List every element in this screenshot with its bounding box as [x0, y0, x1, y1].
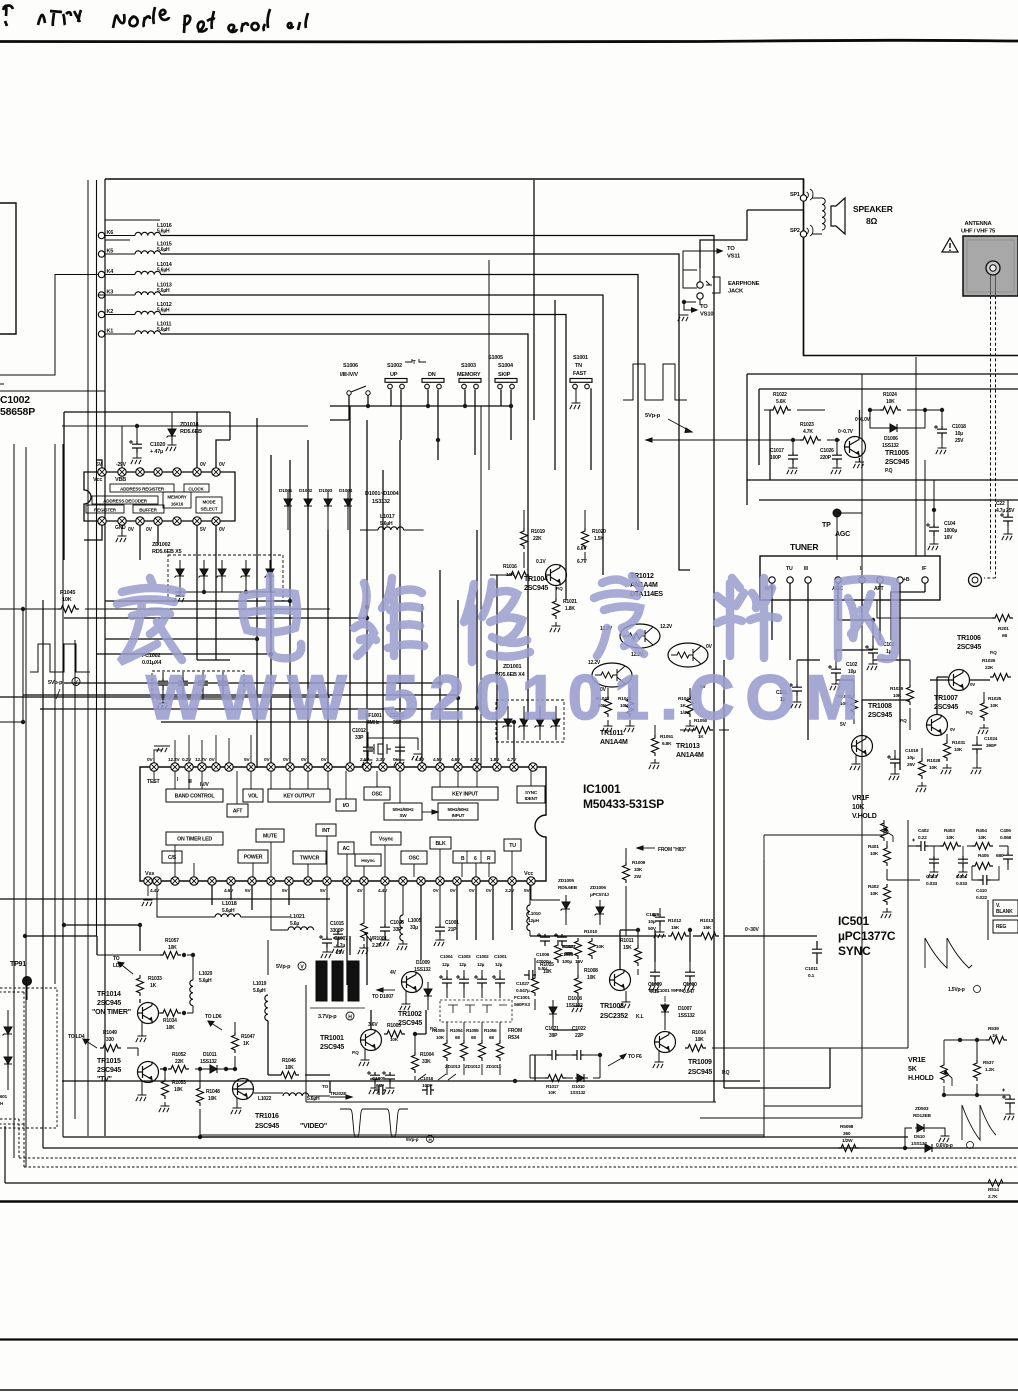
- svg-text:C1022: C1022: [572, 1026, 586, 1032]
- svg-text:10K: 10K: [954, 747, 963, 753]
- svg-text:25V: 25V: [1006, 508, 1015, 514]
- junction VR1E: [942, 1038, 979, 1097]
- resistor R1025: [978, 692, 1002, 734]
- tuner block: [760, 542, 982, 600]
- svg-text:12µ: 12µ: [477, 962, 485, 967]
- junction cluster mid: [255, 599, 516, 724]
- switch bus wires: [330, 388, 591, 470]
- transistor TR1005: [845, 410, 866, 458]
- svg-text:Vcc: Vcc: [524, 871, 533, 877]
- svg-text:0.047µ: 0.047µ: [516, 988, 530, 994]
- svg-text:ZD1011: ZD1011: [486, 1064, 502, 1069]
- resistor R1015: [532, 958, 555, 1010]
- label TR1013: [676, 743, 704, 759]
- label TR1003: [600, 1003, 644, 1020]
- left partial box: [0, 203, 16, 384]
- svg-text:10K: 10K: [174, 1087, 183, 1093]
- nested corners right: [764, 374, 862, 1106]
- box 50Hz SW: [384, 803, 422, 820]
- resistor R1057: [97, 938, 193, 959]
- switch S1004: [498, 363, 514, 369]
- svg-text:0V: 0V: [321, 757, 327, 763]
- capacitor C102: [828, 650, 858, 690]
- svg-text:12.2V: 12.2V: [168, 757, 181, 763]
- svg-text:TU: TU: [509, 843, 516, 849]
- svg-text:KEY INPUT: KEY INPUT: [452, 792, 479, 798]
- svg-text:R1013: R1013: [700, 918, 714, 924]
- svg-text:µPC574J: µPC574J: [590, 892, 609, 898]
- svg-text:R1005: R1005: [432, 1028, 445, 1033]
- svg-text:BLANK: BLANK: [996, 909, 1013, 915]
- svg-text:0~6.0V: 0~6.0V: [855, 417, 871, 423]
- svg-text:SP2: SP2: [790, 228, 800, 234]
- svg-text:S1003: S1003: [461, 363, 476, 369]
- diode D510: [911, 1134, 936, 1152]
- svg-text:50V: 50V: [648, 926, 657, 932]
- handwritten title "H. TRAFO PHO": [3, 6, 308, 34]
- label TR1005: [885, 450, 909, 474]
- svg-text:0V: 0V: [301, 757, 307, 763]
- box MUTE: [256, 829, 284, 842]
- svg-text:5Vp-p: 5Vp-p: [406, 1137, 419, 1143]
- zener ZD1006: [590, 885, 609, 925]
- svg-text:4.6V: 4.6V: [451, 757, 461, 763]
- inductor L1022: [254, 1093, 331, 1102]
- svg-text:L1022: L1022: [258, 1096, 272, 1102]
- svg-text:12µ: 12µ: [459, 962, 467, 967]
- svg-text:C1029: C1029: [646, 912, 660, 918]
- svg-text:5V: 5V: [320, 888, 326, 894]
- svg-text:MEMORY: MEMORY: [167, 495, 186, 500]
- svg-text:4.5V: 4.5V: [433, 757, 443, 763]
- capacitor C1007: [319, 885, 348, 958]
- svg-text:R1028: R1028: [927, 758, 941, 764]
- transistor TR1006: [949, 635, 998, 691]
- transistor TR1001: [320, 1022, 382, 1055]
- zener group ZD1002 RD5.6EB X5: [152, 542, 283, 602]
- TR1016 gnd: [231, 1098, 242, 1114]
- resistor R1034: [159, 1010, 194, 1032]
- svg-text:D1008: D1008: [568, 996, 582, 1002]
- svg-text:10K: 10K: [852, 804, 864, 811]
- svg-text:TO: TO: [322, 1084, 329, 1090]
- svg-text:4.3V: 4.3V: [470, 757, 480, 763]
- svg-text:S1005: S1005: [488, 355, 503, 361]
- left long wire y697: [0, 696, 330, 698]
- resistor R1050: [680, 718, 729, 739]
- svg-text:4.7K: 4.7K: [803, 429, 813, 435]
- pot VR1001: [358, 885, 387, 954]
- svg-text:C1011: C1011: [805, 966, 818, 972]
- switch S1006: [340, 363, 370, 395]
- TR1014 gnd: [136, 1022, 147, 1042]
- label TR1011: [600, 730, 628, 746]
- svg-text:5.6µH: 5.6µH: [380, 521, 393, 527]
- box TW/VCR: [293, 851, 326, 864]
- top harness horizontals: [105, 220, 160, 240]
- svg-text:4.4V: 4.4V: [378, 888, 388, 894]
- svg-text:1.2K: 1.2K: [985, 1067, 995, 1073]
- resistors R1005/R1054/R1055/R1056: [432, 1022, 504, 1075]
- watermark chinese characters + URL: [117, 576, 895, 662]
- resistor R201: [877, 600, 1013, 639]
- svg-text:R1019: R1019: [531, 529, 545, 535]
- R1045 wire: [0, 608, 330, 610]
- svg-text:D1006: D1006: [884, 436, 898, 442]
- svg-text:TR1013: TR1013: [676, 743, 700, 750]
- 0-30V line: [530, 936, 817, 964]
- svg-text:MUTE: MUTE: [263, 834, 278, 840]
- svg-text:2SC945: 2SC945: [885, 459, 909, 466]
- svg-text:1.5Vp-p: 1.5Vp-p: [948, 987, 965, 993]
- svg-text:H: H: [428, 1138, 431, 1143]
- svg-text:ZD1018: ZD1018: [180, 422, 199, 428]
- svg-text:R1054: R1054: [450, 1028, 463, 1033]
- svg-text:R1023: R1023: [800, 422, 814, 428]
- antenna block: [963, 236, 1018, 296]
- svg-text:33µ: 33µ: [410, 925, 418, 931]
- capacitor C101: [776, 660, 802, 708]
- wire right frame v862: [861, 670, 863, 1106]
- svg-text:S1004: S1004: [498, 363, 514, 369]
- svg-text:R1034: R1034: [163, 1018, 177, 1024]
- bus verticals mid: [257, 406, 514, 768]
- svg-text:R1045: R1045: [60, 590, 75, 596]
- svg-text:R1010: R1010: [584, 929, 598, 935]
- svg-text:0.2V: 0.2V: [182, 757, 192, 763]
- capacitor row C1001-C1004: [439, 954, 507, 998]
- svg-text:K1: K1: [107, 329, 114, 335]
- Vss gnd: [142, 885, 153, 906]
- resistor R1049: [100, 1030, 138, 1056]
- svg-text:ON TIMER LED: ON TIMER LED: [177, 837, 212, 843]
- svg-text:SPEAKER: SPEAKER: [853, 204, 893, 214]
- frame tr1005 outer: [747, 374, 1018, 505]
- capacitor C1024: [971, 736, 998, 774]
- svg-text:1SS132: 1SS132: [570, 1090, 586, 1095]
- svg-text:TUNER: TUNER: [790, 542, 818, 552]
- svg-text:V.HOLD: V.HOLD: [852, 813, 877, 820]
- inductor L1019: [253, 981, 268, 1021]
- svg-text:K2: K2: [107, 309, 114, 315]
- transistor oval B (0V): [668, 643, 713, 667]
- inductor L1011 / connector K1: [98, 322, 171, 338]
- svg-text:R1021: R1021: [563, 599, 577, 605]
- resistor R402: [868, 884, 892, 918]
- svg-text:VS10: VS10: [700, 312, 713, 318]
- svg-text:5.6µH: 5.6µH: [307, 1096, 320, 1102]
- zener ZD503: [905, 1106, 950, 1148]
- svg-text:EARPHONE: EARPHONE: [728, 281, 760, 287]
- svg-text:SKIP: SKIP: [498, 372, 511, 378]
- svg-text:SYNC: SYNC: [525, 790, 538, 795]
- svg-text:UHF / VHF 75: UHF / VHF 75: [961, 229, 996, 235]
- svg-text:AC: AC: [342, 846, 350, 852]
- svg-text:R405: R405: [978, 853, 989, 859]
- box AFT: [227, 804, 248, 817]
- svg-text:2SC945: 2SC945: [934, 704, 958, 711]
- IC501 pin boxes: [988, 900, 1018, 940]
- svg-text:R1051: R1051: [660, 734, 674, 740]
- svg-text:D1002: D1002: [299, 488, 313, 494]
- svg-text:REG: REG: [996, 924, 1007, 930]
- svg-text:25V: 25V: [955, 438, 964, 444]
- svg-text:3.6V: 3.6V: [368, 1022, 378, 1028]
- svg-text:C1007: C1007: [334, 936, 348, 942]
- svg-text:C410: C410: [976, 888, 987, 894]
- svg-text:C1002: C1002: [0, 394, 30, 406]
- svg-text:2.3V: 2.3V: [376, 757, 386, 763]
- svg-text:1SS132: 1SS132: [200, 1059, 217, 1065]
- resistor R404: [972, 828, 993, 850]
- antenna feed dashed: [984, 296, 996, 578]
- svg-text:I: I: [177, 777, 179, 783]
- svg-text:2SC945: 2SC945: [398, 1020, 422, 1027]
- wire loop1: [712, 1047, 908, 1049]
- wire right v908: [907, 820, 909, 1048]
- svg-text:12µ: 12µ: [442, 962, 450, 967]
- capacitor C1009: [648, 962, 662, 995]
- TR1005 collector wires: [859, 410, 861, 462]
- svg-text:R1047: R1047: [241, 1034, 255, 1040]
- TR1002 gnd: [400, 991, 411, 1010]
- svg-text:50Hz/60Hz: 50Hz/60Hz: [393, 807, 415, 812]
- svg-text:10K: 10K: [870, 891, 879, 897]
- label TO VS11: [683, 246, 741, 270]
- TR cluster wires: [0, 899, 330, 1089]
- capacitor C406: [1000, 828, 1013, 870]
- label IC1002: [0, 394, 35, 418]
- svg-text:1K: 1K: [680, 703, 686, 709]
- transistor TR1008: [840, 703, 907, 757]
- svg-text:FROM: FROM: [508, 1028, 522, 1034]
- inductor L1016 / connector K6: [98, 223, 171, 239]
- transistor TR1003 npn: [610, 970, 631, 1009]
- label FROM H83: [637, 846, 687, 853]
- resistor R1030: [838, 680, 858, 724]
- capacitor C1011: [805, 946, 822, 979]
- svg-text:TO IC1001 #9PIN: TO IC1001 #9PIN: [648, 988, 684, 994]
- svg-text:4.3V: 4.3V: [415, 757, 425, 763]
- svg-text:R1057: R1057: [165, 938, 179, 944]
- svg-text:R1024: R1024: [883, 392, 897, 398]
- svg-text:100P: 100P: [422, 1083, 433, 1089]
- svg-text:6.7V: 6.7V: [577, 559, 587, 565]
- junction dots switch bus: [366, 404, 513, 442]
- resistor R1047: [232, 1022, 256, 1071]
- transistor oval C: [588, 660, 632, 693]
- svg-text:H: H: [0, 1101, 3, 1106]
- TP91 dashed box: [0, 988, 57, 1128]
- svg-text:I/O: I/O: [343, 803, 349, 809]
- svg-text:M50433-531SP: M50433-531SP: [583, 797, 664, 811]
- svg-text:1SS132: 1SS132: [678, 1013, 695, 1019]
- svg-text:IF: IF: [922, 566, 926, 572]
- svg-text:C1021: C1021: [545, 1026, 559, 1032]
- svg-text:5V: 5V: [244, 757, 250, 763]
- svg-text:D1001~D1004: D1001~D1004: [365, 491, 400, 497]
- resistor R1010: [584, 929, 605, 959]
- svg-text:TR1002: TR1002: [398, 1011, 422, 1018]
- resistor R1012: [668, 918, 689, 940]
- svg-text:R1052: R1052: [172, 1052, 186, 1058]
- switch S1003 MEMORY: [457, 363, 481, 389]
- inductor L1010: [527, 885, 541, 936]
- svg-text:IV/V: IV/V: [200, 782, 210, 788]
- below-IC wires: [212, 885, 512, 985]
- svg-text:+ 47µ: + 47µ: [150, 449, 163, 455]
- svg-text:IC1001: IC1001: [583, 782, 621, 796]
- svg-text:0V: 0V: [200, 462, 207, 468]
- resistor R1042: [596, 688, 613, 732]
- label TO D1007: [372, 988, 395, 1000]
- inductor L1013 / connector K3: [98, 283, 171, 299]
- capacitor C1001 21P: [434, 885, 459, 946]
- svg-text:TR1014: TR1014: [97, 991, 121, 998]
- svg-text:680: 680: [996, 853, 1004, 859]
- svg-text:2SC945: 2SC945: [97, 1067, 121, 1074]
- svg-text:12µ: 12µ: [495, 962, 503, 967]
- svg-text:R1003: R1003: [387, 1023, 401, 1029]
- svg-text:VOL: VOL: [248, 794, 259, 800]
- box 50Hz INPUT: [438, 803, 478, 820]
- diode D1006: [870, 410, 925, 449]
- resistor R1014: [685, 1030, 908, 1052]
- main frame left vertical: [104, 179, 106, 1136]
- wire L1011 run: [161, 334, 528, 720]
- svg-text:ZD1006: ZD1006: [590, 885, 606, 891]
- resistor R1009: [623, 848, 646, 936]
- IC1002 bottom wires: [84, 525, 216, 660]
- svg-text:TU: TU: [786, 566, 793, 572]
- svg-text:68: 68: [471, 1035, 476, 1040]
- resistor R1024: [868, 392, 942, 414]
- label TO F6: [608, 1054, 642, 1066]
- svg-text:2SC945: 2SC945: [255, 1123, 279, 1130]
- svg-text:R5098: R5098: [840, 1124, 854, 1130]
- svg-text:10K: 10K: [436, 1035, 445, 1040]
- resistor R1031: [941, 734, 966, 774]
- svg-text:10K: 10K: [285, 1065, 294, 1071]
- svg-text:C1024: C1024: [984, 736, 998, 742]
- transistor TR1007: [927, 695, 974, 736]
- svg-text:R1031: R1031: [952, 740, 966, 746]
- svg-text:360: 360: [843, 1131, 851, 1137]
- svg-text:5.6µH: 5.6µH: [157, 288, 170, 294]
- box C/S: [162, 851, 182, 863]
- svg-text:TR1006: TR1006: [957, 635, 981, 642]
- svg-text:5.6µH: 5.6µH: [157, 308, 170, 314]
- pot VR1E: [908, 1057, 952, 1086]
- svg-text:"TV": "TV": [97, 1076, 112, 1083]
- resistor R539: [960, 1026, 1007, 1044]
- tuner pin wires down: [772, 583, 925, 770]
- svg-text:RD5.6EB: RD5.6EB: [558, 885, 578, 891]
- svg-text:22K: 22K: [533, 536, 542, 542]
- svg-text:L1017: L1017: [380, 514, 395, 520]
- thick bottom rule2: [0, 1338, 1018, 1340]
- VR1F wires: [764, 820, 1008, 880]
- svg-text:10µ: 10µ: [648, 919, 656, 925]
- TR1009 gnd: [653, 1051, 664, 1068]
- CF1001 wires: [368, 732, 400, 744]
- svg-text:INT: INT: [322, 828, 331, 834]
- svg-text:0~30V: 0~30V: [745, 927, 759, 933]
- capacitor C1019: [887, 748, 919, 780]
- IC1002 pin2 wire: [121, 426, 123, 468]
- box SYNC IDENT: [517, 786, 545, 803]
- IC1002 pin6 wire: [64, 412, 230, 560]
- junction D510: [903, 1146, 907, 1150]
- svg-text:R1020: R1020: [592, 529, 606, 535]
- inductor L1014 / connector K4: [98, 262, 172, 278]
- svg-text:1S3132: 1S3132: [372, 499, 390, 505]
- svg-text:R1048: R1048: [206, 1089, 220, 1095]
- long verticals center: [481, 260, 489, 767]
- svg-text:-29V: -29V: [116, 462, 127, 468]
- svg-text:5.6µ: 5.6µ: [290, 921, 299, 927]
- TR1001 wires: [350, 936, 426, 1034]
- main frame top/right: [105, 179, 1018, 356]
- svg-text:K.L: K.L: [636, 1014, 644, 1020]
- svg-text:TO F6: TO F6: [628, 1054, 642, 1060]
- diodes D1001-D1004: [279, 488, 400, 530]
- svg-text:10K: 10K: [886, 399, 895, 405]
- svg-text:0.033: 0.033: [956, 881, 968, 887]
- svg-text:2SC945: 2SC945: [97, 1000, 121, 1007]
- TP91 inner parts: [0, 1010, 12, 1106]
- resistor R514: [985, 1180, 1006, 1201]
- label 0-0.7V: [838, 429, 854, 435]
- left verticals lower: [14, 444, 26, 1167]
- svg-text:P.Q: P.Q: [966, 710, 973, 715]
- svg-text:VR1F: VR1F: [852, 795, 870, 802]
- IC IC1001 outline+pins: [140, 757, 546, 894]
- svg-text:2.7K: 2.7K: [988, 1194, 998, 1200]
- svg-text:SW: SW: [400, 813, 408, 818]
- svg-text:Vss: Vss: [145, 871, 154, 877]
- speaker terminal SP1: [790, 189, 813, 201]
- label 5Vp-p circle-V: [276, 962, 306, 971]
- svg-text:0V: 0V: [433, 888, 439, 894]
- svg-text:0.1: 0.1: [808, 973, 815, 979]
- svg-text:0V: 0V: [219, 462, 226, 468]
- svg-text:3.7Vp-p: 3.7Vp-p: [318, 1014, 337, 1020]
- resistor R1023: [780, 422, 840, 444]
- capacitor C1027 / FC1001: [514, 970, 536, 1008]
- svg-text:10K: 10K: [390, 1037, 399, 1042]
- svg-text:LD3: LD3: [113, 963, 122, 969]
- resistor R403: [940, 828, 961, 850]
- svg-text:5.6µH: 5.6µH: [157, 229, 170, 235]
- resistor R1033: [137, 975, 163, 1003]
- resistor R405: [972, 853, 1004, 870]
- waveform 5Vp-p V left: [30, 644, 90, 699]
- svg-text:P.Q: P.Q: [990, 650, 997, 655]
- svg-text:10K: 10K: [208, 1096, 217, 1102]
- transistor TR1015: [97, 1058, 159, 1083]
- svg-text:3300P: 3300P: [330, 928, 344, 934]
- svg-text:VR1001: VR1001: [370, 936, 387, 942]
- svg-text:R1033: R1033: [148, 976, 162, 982]
- svg-text:BUFFER: BUFFER: [139, 508, 157, 513]
- svg-text:0.068: 0.068: [1000, 835, 1012, 841]
- svg-text:33P: 33P: [355, 735, 364, 741]
- thick bottom rule: [0, 1200, 1018, 1203]
- box I/O: [336, 799, 356, 811]
- resistor R1019: [521, 510, 546, 568]
- svg-text:K5: K5: [107, 249, 114, 255]
